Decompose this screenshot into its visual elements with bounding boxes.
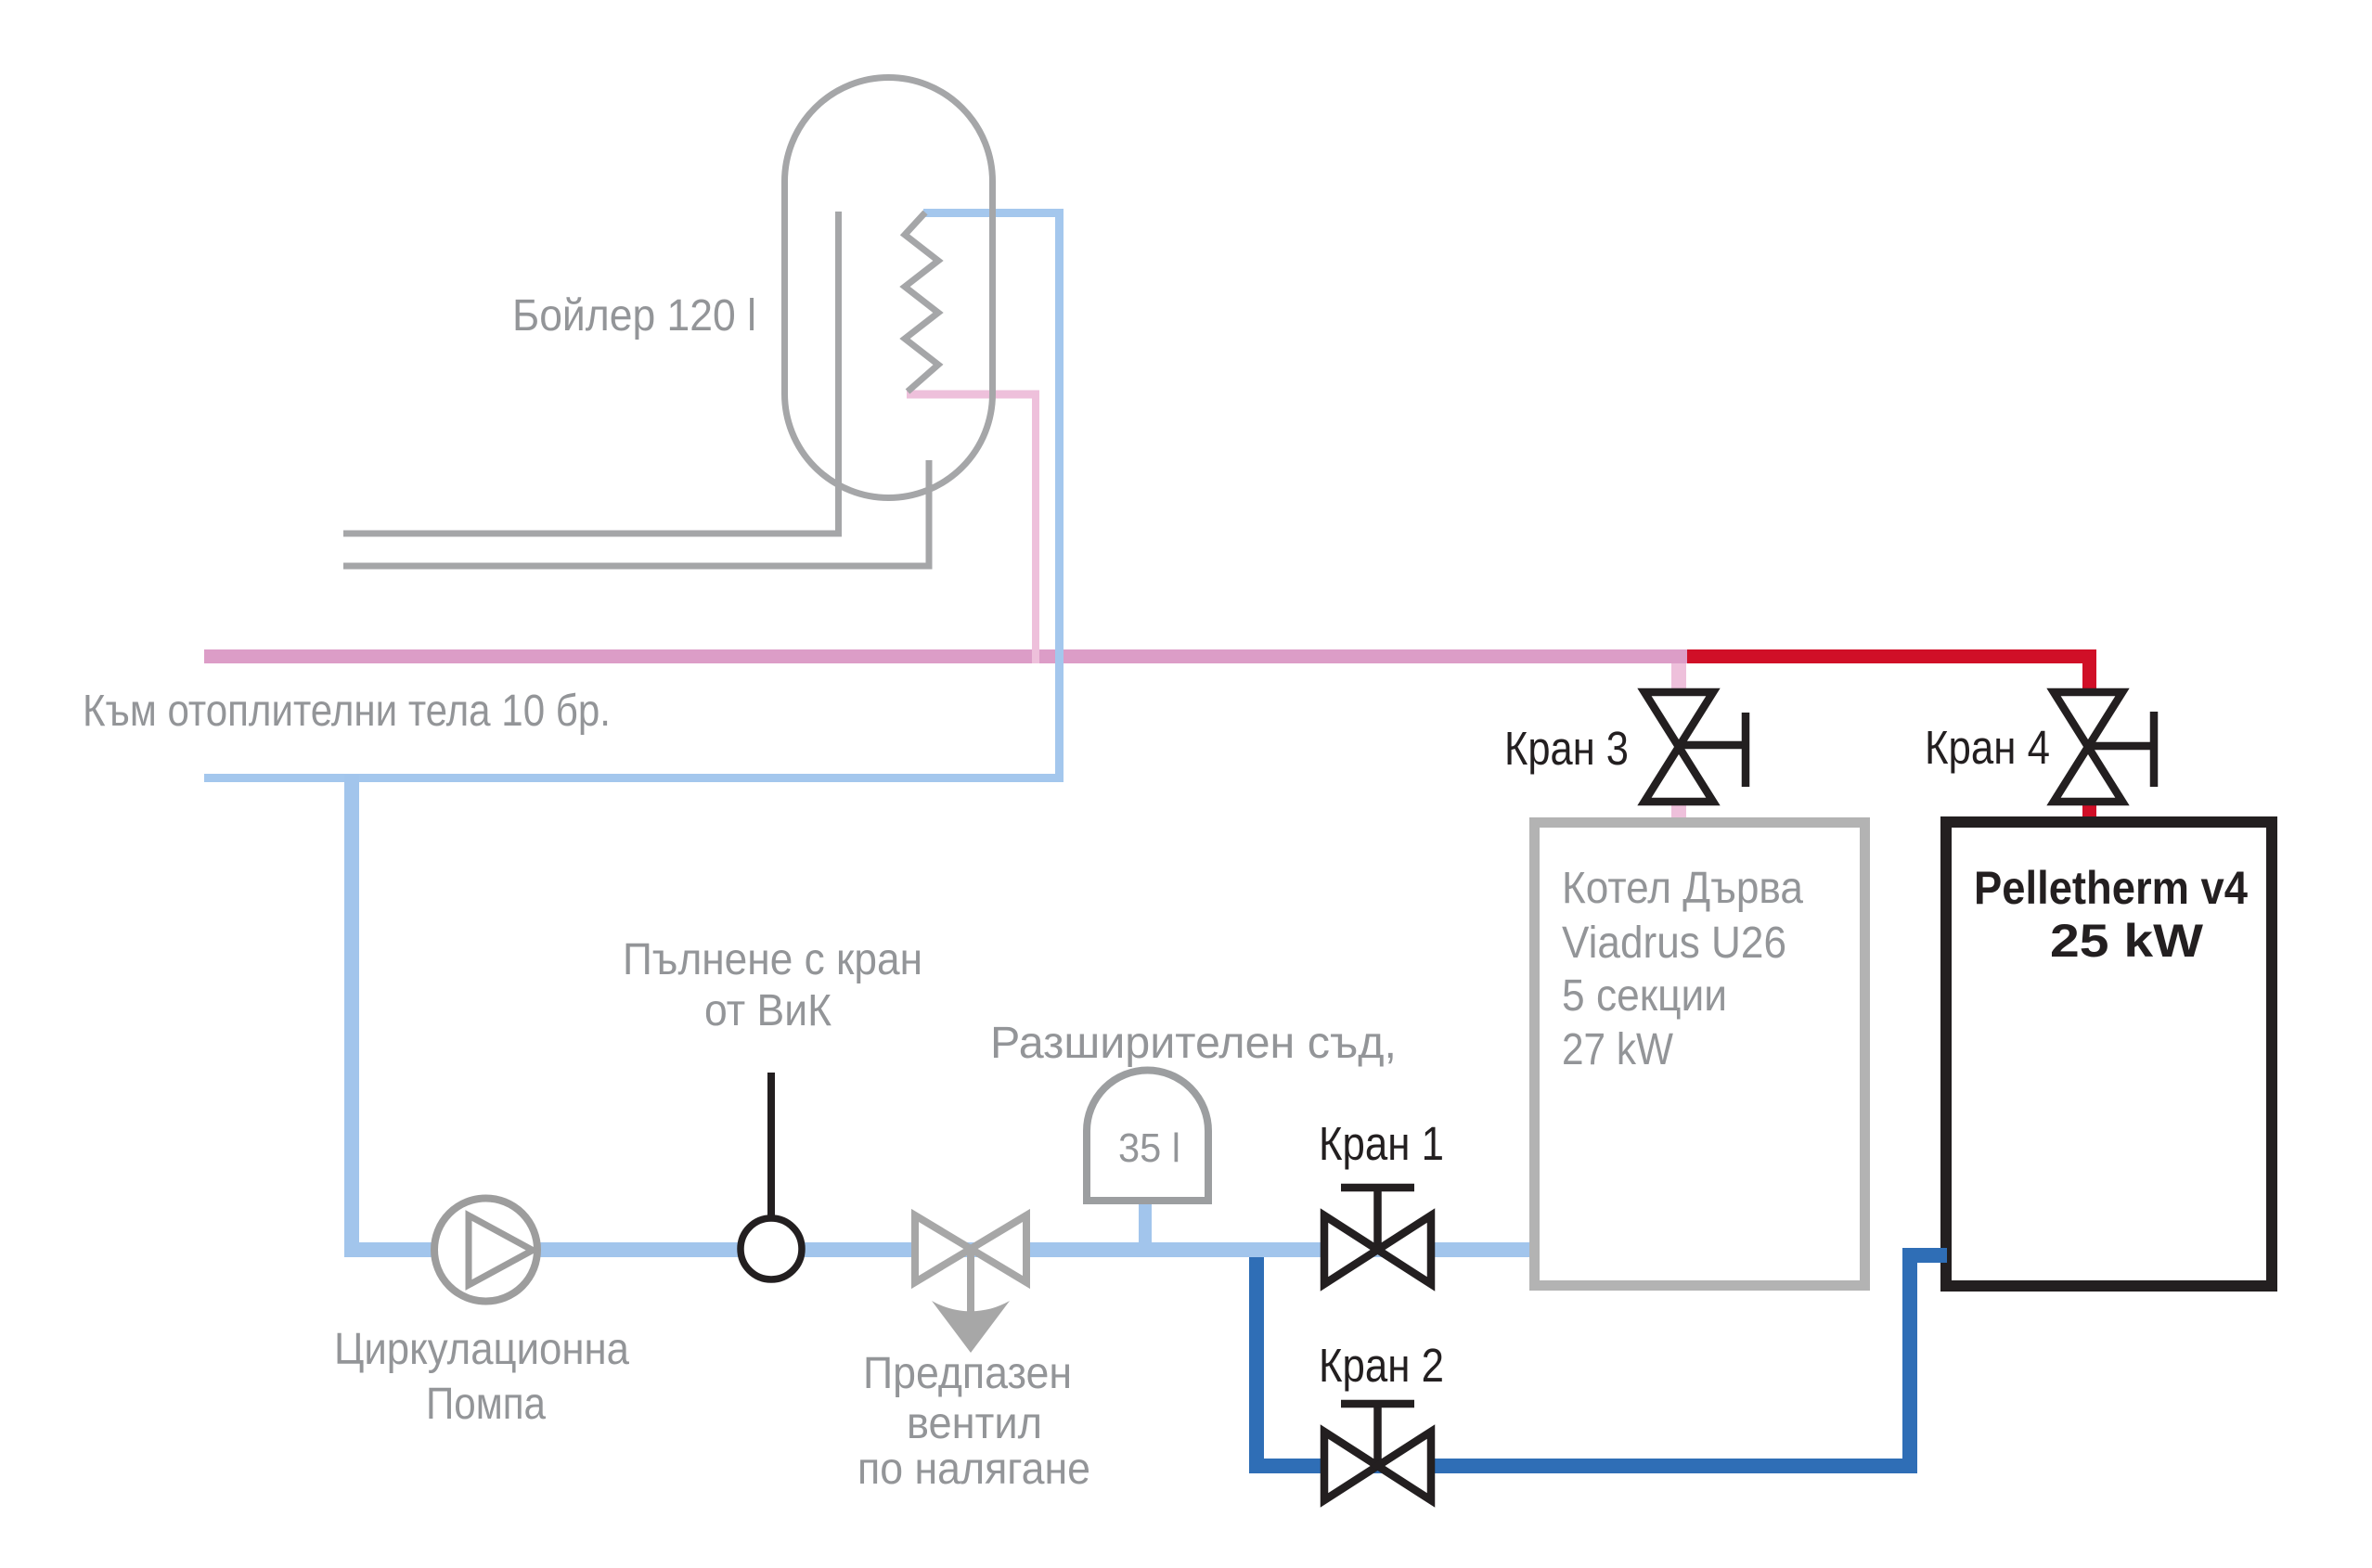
svg-text:Към отоплителни тела 10 бр.: Към отоплителни тела 10 бр.: [83, 687, 611, 736]
svg-text:Циркулационна: Циркулационна: [334, 1325, 629, 1374]
svg-text:5 секции: 5 секции: [1562, 971, 1727, 1021]
svg-text:Пълнене с кран: Пълнене с кран: [623, 935, 922, 984]
svg-text:вентил: вентил: [907, 1399, 1042, 1448]
svg-text:Viadrus U26: Viadrus U26: [1562, 919, 1786, 968]
svg-text:27 kW: 27 kW: [1562, 1025, 1674, 1074]
svg-text:35 l: 35 l: [1118, 1125, 1180, 1171]
svg-text:Помпа: Помпа: [426, 1380, 546, 1429]
svg-text:Кран 4: Кран 4: [1925, 721, 2050, 774]
svg-text:Кран 2: Кран 2: [1319, 1339, 1444, 1392]
svg-text:по налягане: по налягане: [857, 1445, 1090, 1494]
svg-text:Кран 3: Кран 3: [1504, 722, 1629, 775]
svg-text:от ВиК: от ВиК: [704, 986, 831, 1035]
svg-text:Pelletherm v4: Pelletherm v4: [1974, 862, 2248, 914]
svg-text:25 kW: 25 kW: [2050, 915, 2204, 967]
svg-text:Разширителен съд,: Разширителен съд,: [990, 1019, 1397, 1068]
svg-text:Бойлер 120 l: Бойлер 120 l: [512, 291, 756, 341]
svg-text:Котел Дърва: Котел Дърва: [1562, 864, 1803, 913]
svg-text:Предпазен: Предпазен: [863, 1349, 1072, 1398]
svg-text:Кран 1: Кран 1: [1319, 1117, 1444, 1170]
